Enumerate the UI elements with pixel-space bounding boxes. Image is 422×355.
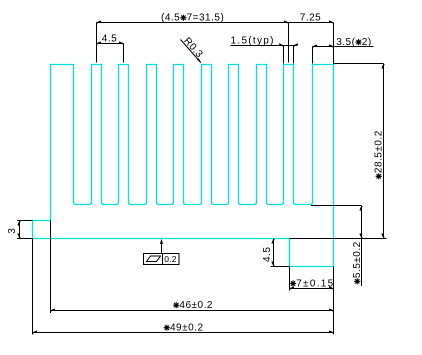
extension line main body left edge (down) [50, 221, 52, 314]
dimension 3.5(*2) wall thickness [313, 37, 374, 48]
heatsink profile outline (cyan extrusion cross-section with 9 fins, right wall, bottom-left notch, bottom-right foot) [33, 65, 334, 267]
flatness/parallelism feature control frame 0.2 with leader arrow [144, 239, 180, 265]
leader R0.3 with arrow to fin6 tip corner [181, 36, 205, 63]
dimension 4.5 foot height [262, 239, 274, 267]
svg-text:2): 2) [362, 37, 372, 48]
svg-text:7=31.5): 7=31.5) [187, 13, 225, 24]
extension line right wall outer (top) [333, 23, 335, 65]
dimension *28.5±0.2 overall height [334, 64, 385, 239]
extension line notch bottom (left) [17, 238, 33, 240]
svg-text:4.5: 4.5 [262, 247, 273, 262]
svg-text:(4.5: (4.5 [161, 13, 180, 24]
extension line right outer edge (down, long) [333, 267, 335, 335]
dimension 4.5 fin pitch [97, 34, 124, 45]
extension line fin3 center [123, 44, 125, 63]
extension line base bottom surface (right) [290, 238, 387, 240]
extension line base top surface (right) [311, 205, 362, 207]
svg-text:7.25: 7.25 [300, 13, 321, 24]
svg-text:28.5±0.2: 28.5±0.2 [374, 130, 385, 173]
svg-text:3.5(: 3.5( [336, 37, 355, 48]
extension line fin9 center [288, 23, 290, 63]
dimension 1.5(typ) fin thickness [231, 36, 299, 47]
svg-text:5.5±0.2: 5.5±0.2 [352, 241, 363, 278]
dimension *7±0.15 foot width [290, 278, 335, 289]
dimension *49±0.2 [33, 323, 334, 334]
svg-text:46±0.2: 46±0.2 [179, 300, 213, 311]
svg-text:49±0.2: 49±0.2 [170, 323, 204, 334]
extension line foot bottom (left) [271, 266, 290, 268]
svg-text:1.5(typ): 1.5(typ) [231, 36, 275, 47]
extension line fin2 center [96, 23, 98, 63]
dimension *5.5±0.2 base thickness [352, 206, 363, 287]
extension line right wall inner (top) [312, 47, 314, 64]
extension line fin9 left [283, 46, 285, 64]
svg-text:4.5: 4.5 [102, 34, 117, 45]
extension line notch left edge (down) [32, 239, 34, 335]
extension line fin9 right [293, 46, 295, 64]
extension line notch top (left) [17, 220, 33, 222]
dimension (4.5*7=31.5) top horizontal with 7.25 continuation [97, 13, 334, 24]
svg-text:7±0.15: 7±0.15 [296, 278, 334, 289]
dimension 3 notch height [7, 221, 20, 239]
svg-text:0.2: 0.2 [164, 254, 176, 264]
dimension *46±0.2 [51, 300, 334, 311]
svg-text:3: 3 [7, 228, 18, 234]
extension line foot left edge (down) [289, 267, 291, 291]
